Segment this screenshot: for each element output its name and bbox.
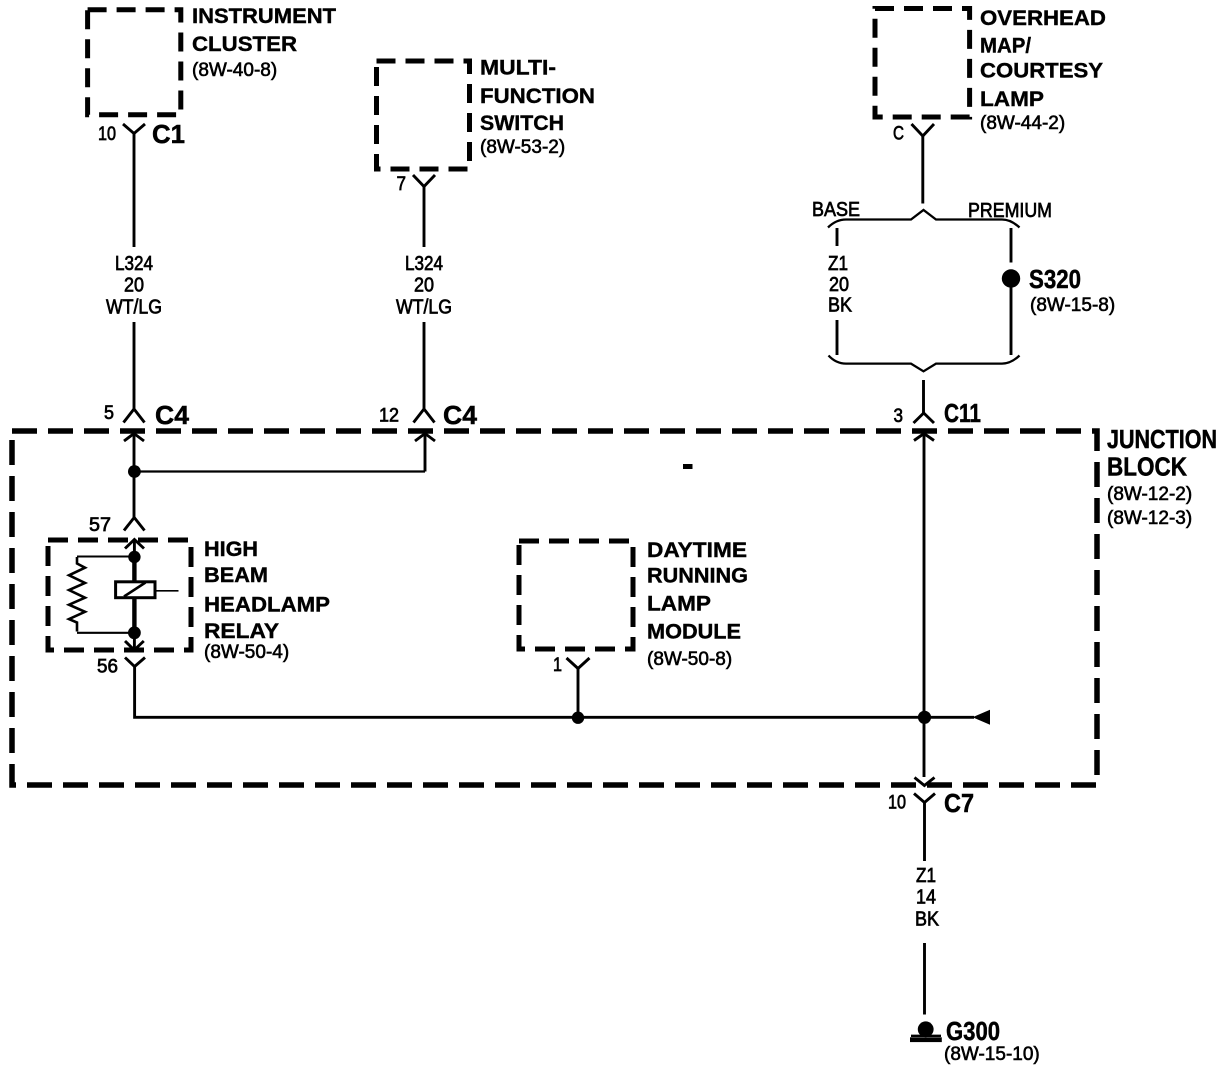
svg-text:5: 5 <box>104 403 114 424</box>
svg-text:JUNCTION: JUNCTION <box>1107 424 1217 454</box>
svg-text:BK: BK <box>915 909 940 931</box>
svg-text:(8W-15-8): (8W-15-8) <box>1030 295 1115 316</box>
svg-text:L324: L324 <box>115 253 153 275</box>
svg-text:1: 1 <box>553 655 562 676</box>
svg-text:56: 56 <box>97 657 118 678</box>
svg-text:C1: C1 <box>152 119 185 149</box>
svg-text:(8W-50-8): (8W-50-8) <box>647 649 732 670</box>
svg-text:MAP/: MAP/ <box>980 34 1031 58</box>
svg-text:LAMP: LAMP <box>647 592 711 616</box>
svg-text:BASE: BASE <box>812 199 860 221</box>
svg-text:S320: S320 <box>1029 264 1081 294</box>
svg-text:SWITCH: SWITCH <box>480 111 564 135</box>
svg-text:(8W-15-10): (8W-15-10) <box>944 1044 1040 1065</box>
svg-text:BLOCK: BLOCK <box>1107 452 1187 482</box>
svg-text:(8W-44-2): (8W-44-2) <box>980 113 1065 134</box>
svg-text:3: 3 <box>894 406 904 427</box>
svg-text:PREMIUM: PREMIUM <box>968 200 1052 222</box>
svg-text:(8W-40-8): (8W-40-8) <box>192 60 277 81</box>
svg-text:DAYTIME: DAYTIME <box>647 538 747 562</box>
svg-text:C4: C4 <box>443 400 478 430</box>
svg-text:LAMP: LAMP <box>980 87 1044 111</box>
svg-text:(8W-50-4): (8W-50-4) <box>204 642 289 663</box>
svg-text:Z1: Z1 <box>828 253 848 275</box>
svg-text:C11: C11 <box>944 398 981 428</box>
svg-text:C7: C7 <box>944 788 974 818</box>
svg-text:10: 10 <box>888 793 906 814</box>
svg-text:HEADLAMP: HEADLAMP <box>204 593 330 617</box>
svg-text:20: 20 <box>414 275 434 297</box>
svg-text:(8W-12-3): (8W-12-3) <box>1107 508 1192 529</box>
svg-text:(8W-53-2): (8W-53-2) <box>480 137 565 158</box>
svg-text:WT/LG: WT/LG <box>106 297 162 319</box>
svg-text:FUNCTION: FUNCTION <box>480 84 595 108</box>
svg-text:L324: L324 <box>405 253 443 275</box>
svg-text:20: 20 <box>124 275 144 297</box>
svg-text:WT/LG: WT/LG <box>396 297 452 319</box>
svg-text:(8W-12-2): (8W-12-2) <box>1107 484 1192 505</box>
svg-text:OVERHEAD: OVERHEAD <box>980 6 1106 30</box>
svg-text:14: 14 <box>916 887 936 909</box>
svg-text:HIGH: HIGH <box>204 537 258 561</box>
svg-text:MODULE: MODULE <box>647 620 741 644</box>
svg-text:57: 57 <box>89 515 111 536</box>
svg-text:C: C <box>893 124 904 145</box>
svg-text:RELAY: RELAY <box>204 619 279 643</box>
svg-text:12: 12 <box>379 406 399 427</box>
svg-text:CLUSTER: CLUSTER <box>192 32 297 56</box>
svg-text:BEAM: BEAM <box>204 563 268 587</box>
svg-text:7: 7 <box>397 174 407 195</box>
svg-text:COURTESY: COURTESY <box>980 59 1103 83</box>
svg-text:INSTRUMENT: INSTRUMENT <box>192 4 336 28</box>
svg-text:20: 20 <box>829 274 849 296</box>
svg-text:MULTI-: MULTI- <box>480 56 556 80</box>
svg-text:RUNNING: RUNNING <box>647 564 748 588</box>
svg-text:G300: G300 <box>946 1016 1000 1046</box>
svg-text:C4: C4 <box>155 400 190 430</box>
svg-text:BK: BK <box>828 295 853 317</box>
svg-text:10: 10 <box>98 124 116 145</box>
svg-text:Z1: Z1 <box>916 865 936 887</box>
